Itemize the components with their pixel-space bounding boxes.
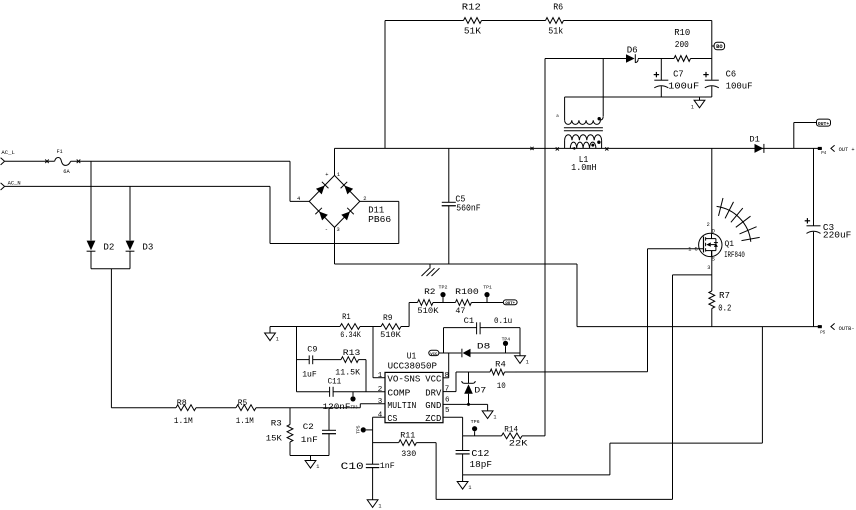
svg-text:R13: R13 (343, 348, 361, 358)
diode D1 (749, 135, 764, 153)
svg-text:AC_N: AC_N (8, 180, 21, 186)
ground V1 (457, 475, 471, 491)
svg-text:15K: 15K (266, 433, 283, 443)
test point TP5 (355, 425, 372, 434)
wire (335, 147, 822, 150)
wire (313, 359, 341, 361)
capacitor C7 (654, 59, 700, 98)
svg-text:1: 1 (378, 372, 383, 380)
svg-text:C7: C7 (673, 69, 684, 80)
svg-text:DRV: DRV (425, 389, 442, 399)
svg-text:D: D (712, 229, 715, 235)
resistor R2 (417, 287, 439, 316)
wire (129, 251, 131, 269)
test point TP2 (439, 284, 448, 302)
svg-text:VCC: VCC (425, 375, 442, 385)
capacitor C10 (341, 461, 395, 500)
svg-text:PB66: PB66 (368, 215, 391, 225)
svg-text:330: 330 (401, 449, 416, 459)
svg-text:5: 5 (445, 407, 450, 415)
svg-text:+: + (325, 172, 328, 178)
svg-text:D6: D6 (627, 45, 638, 56)
capacitor C9 (302, 344, 317, 379)
svg-text:1: 1 (691, 105, 694, 111)
svg-text:1: 1 (493, 415, 496, 421)
svg-text:IRF840: IRF840 (724, 251, 745, 260)
svg-text:51k: 51k (548, 26, 563, 37)
svg-text:TP2: TP2 (439, 284, 448, 290)
wire (297, 359, 310, 361)
wire (333, 391, 385, 393)
svg-text:220uF: 220uF (823, 230, 852, 241)
diode D8 (462, 342, 490, 358)
net label OUT+ (817, 119, 831, 127)
wire (335, 263, 578, 265)
svg-text:OUTB-: OUTB- (839, 326, 855, 332)
diode D3 (126, 241, 154, 253)
wire (673, 274, 712, 276)
wire (296, 327, 298, 392)
wire (401, 303, 418, 327)
capacitor C2 (301, 408, 336, 456)
wire (505, 371, 648, 373)
svg-text:22K: 22K (509, 439, 529, 449)
wire (443, 372, 456, 392)
ground V1 (305, 456, 319, 471)
wire (384, 21, 386, 149)
capacitor C11 (323, 377, 351, 412)
resistor R3 (266, 408, 293, 456)
wire (359, 360, 367, 392)
svg-text:1uF: 1uF (302, 370, 317, 380)
wire (270, 326, 340, 328)
svg-text:R2: R2 (424, 287, 435, 297)
svg-text:510K: 510K (380, 330, 402, 340)
test point TP1 (483, 284, 492, 302)
test point TP3 (350, 392, 357, 411)
svg-text:2: 2 (378, 386, 383, 394)
wire (256, 404, 385, 408)
svg-text:51K: 51K (464, 26, 481, 37)
svg-text:P5: P5 (820, 331, 826, 335)
wire (91, 268, 130, 270)
svg-text:R4: R4 (495, 360, 506, 370)
svg-text:100uF: 100uF (726, 81, 753, 92)
test point TP4 (502, 337, 511, 353)
svg-text:1.1M: 1.1M (236, 416, 254, 426)
wire (gate) (648, 248, 704, 250)
heatsink of Q1 (717, 198, 760, 242)
svg-text:C12: C12 (471, 449, 489, 459)
svg-text:0.2: 0.2 (718, 304, 731, 314)
svg-text:1nF: 1nF (380, 461, 395, 471)
svg-text:F1: F1 (57, 149, 63, 155)
resistor R9 (380, 313, 402, 340)
wire (433, 302, 455, 304)
svg-text:D8: D8 (477, 342, 490, 352)
svg-text:1nF: 1nF (301, 435, 318, 445)
net label OUT+ (503, 300, 517, 306)
svg-text:OUT+: OUT+ (818, 121, 830, 127)
svg-text:R14: R14 (504, 425, 518, 435)
diode D2 (87, 241, 115, 253)
wire (647, 249, 649, 372)
svg-text:D3: D3 (142, 243, 153, 253)
svg-text:CS: CS (387, 414, 397, 424)
svg-text:4: 4 (297, 196, 300, 202)
net label BO (712, 42, 725, 50)
wire (691, 58, 712, 60)
wire (519, 328, 521, 356)
wire (110, 269, 112, 408)
svg-text:R5: R5 (238, 398, 248, 408)
resistor R11 (399, 431, 417, 460)
svg-text:UCC38050P: UCC38050P (388, 361, 437, 371)
wire (545, 58, 626, 60)
svg-text:1: 1 (468, 485, 471, 491)
ground V1 (691, 97, 705, 111)
svg-text:1 G: 1 G (688, 247, 697, 253)
svg-text:100uF: 100uF (668, 81, 699, 92)
wire (360, 326, 381, 328)
svg-text:1: 1 (526, 359, 529, 365)
ground (earth) (422, 264, 440, 276)
svg-text:560nF: 560nF (456, 204, 481, 214)
svg-text:TP5: TP5 (355, 425, 361, 434)
wire (334, 148, 336, 175)
svg-text:C2: C2 (303, 422, 314, 432)
svg-text:BO: BO (716, 44, 723, 50)
wire (439, 352, 461, 354)
svg-text:R1: R1 (342, 312, 351, 322)
svg-text:D11: D11 (368, 206, 384, 216)
svg-text:VO-SNS: VO-SNS (387, 375, 420, 385)
wire (794, 123, 817, 149)
wire (564, 20, 712, 22)
fuse F1 (45, 149, 80, 175)
capacitor C1 (444, 316, 521, 353)
svg-text:ZCD: ZCD (425, 414, 441, 424)
svg-text:R9: R9 (383, 313, 393, 323)
svg-text:3: 3 (707, 265, 710, 271)
svg-text:6: 6 (445, 397, 450, 405)
svg-text:1: 1 (337, 172, 340, 178)
svg-text:Q1: Q1 (725, 239, 735, 249)
wire (5, 160, 55, 162)
wire (196, 407, 236, 409)
wire (463, 435, 502, 437)
svg-text:6.34K: 6.34K (340, 330, 361, 340)
resistor R13 (335, 348, 361, 377)
capacitor C3 (805, 148, 852, 326)
svg-text:1: 1 (276, 337, 279, 343)
wire (482, 20, 546, 22)
svg-text:TP4: TP4 (502, 337, 511, 343)
test point TP6 (471, 419, 480, 436)
wire (522, 435, 545, 437)
wire (471, 352, 521, 354)
port AC_L (1, 150, 15, 165)
svg-text:-: - (325, 227, 328, 233)
resistor R100 (455, 287, 479, 316)
svg-text:U1: U1 (407, 351, 417, 361)
svg-text:C11: C11 (328, 377, 342, 387)
svg-text:C10: C10 (341, 462, 364, 473)
svg-text:OUT +: OUT + (839, 147, 855, 153)
svg-text:MULTIN: MULTIN (387, 401, 416, 411)
port P4 OUT+ (818, 145, 855, 156)
resistor R1 (340, 312, 362, 340)
resistor R6 (546, 1, 564, 36)
wire (385, 20, 464, 22)
svg-text:10: 10 (497, 381, 506, 391)
op-amp U1 (UCC38050P PFC controller) (378, 351, 450, 424)
diode D6 (626, 45, 638, 63)
net label VCC (429, 350, 439, 357)
resistor R4 (490, 360, 506, 392)
svg-text:120nF: 120nF (323, 402, 351, 412)
svg-text:R6: R6 (553, 1, 563, 12)
wire (443, 353, 449, 378)
svg-text:D2: D2 (103, 243, 114, 253)
svg-text:7: 7 (445, 386, 450, 394)
wire (71, 160, 290, 162)
svg-text:C9: C9 (307, 344, 317, 354)
wire (456, 371, 490, 373)
diode D7 (462, 372, 487, 404)
svg-text:1.1M: 1.1M (174, 416, 193, 426)
svg-text:200: 200 (675, 39, 689, 50)
wire (290, 161, 309, 201)
svg-text:1: 1 (378, 503, 381, 509)
svg-text:GND: GND (425, 401, 441, 411)
wire (90, 161, 92, 240)
svg-text:R8: R8 (177, 398, 187, 408)
capacitor C12 (456, 436, 492, 475)
inductor L1 (PFC transformer) (556, 97, 609, 173)
resistor R8 (174, 398, 196, 426)
svg-text:R12: R12 (462, 1, 481, 12)
svg-text:C1: C1 (464, 316, 475, 326)
wire (602, 59, 604, 117)
wire (565, 96, 712, 98)
port AC_N (1, 180, 21, 190)
resistor R14 (502, 425, 529, 449)
svg-text:2: 2 (363, 196, 366, 202)
ground V1 (265, 327, 279, 343)
resistor R5 (236, 398, 256, 426)
wire (577, 326, 822, 328)
ground V1 (482, 404, 496, 420)
resistor R12 (462, 1, 482, 36)
svg-text:510K: 510K (417, 306, 439, 316)
svg-text:TP1: TP1 (483, 284, 492, 290)
svg-text:P4: P4 (821, 152, 827, 156)
wire (711, 21, 713, 80)
svg-text:TP6: TP6 (471, 419, 480, 425)
svg-text:1: 1 (316, 464, 319, 470)
svg-text:OUT+: OUT+ (505, 302, 515, 306)
resistor R7 (709, 291, 731, 314)
bridge rectifier D11 (297, 172, 391, 233)
wire (471, 302, 503, 304)
svg-text:VCC: VCC (430, 353, 438, 357)
wire (aux sense) (544, 59, 546, 436)
svg-text:3: 3 (378, 398, 383, 406)
wire (638, 58, 674, 60)
svg-text:3: 3 (337, 227, 340, 233)
wire (source) (711, 251, 713, 291)
svg-text:R10: R10 (674, 27, 690, 38)
ground V1 (367, 500, 381, 510)
resistor R10 (674, 27, 691, 61)
svg-text:47: 47 (455, 306, 465, 316)
wire (463, 327, 763, 475)
wire (270, 186, 399, 243)
svg-text:18pF: 18pF (470, 460, 493, 470)
svg-text:R11: R11 (400, 431, 415, 441)
wire (290, 455, 329, 457)
svg-text:COMP: COMP (387, 389, 410, 399)
svg-text:6A: 6A (63, 169, 69, 175)
transistor Q1 (IRF840 MOSFET) (688, 148, 745, 270)
wire (443, 403, 488, 406)
svg-text:AC_L: AC_L (1, 150, 15, 156)
port P5 OUT- (818, 323, 855, 335)
svg-text:4: 4 (378, 411, 383, 419)
wire (297, 391, 330, 393)
svg-text:1.0mH: 1.0mH (571, 162, 597, 173)
wire (129, 186, 131, 240)
wire (576, 264, 578, 327)
wire (5, 185, 270, 187)
wire (416, 443, 672, 500)
capacitor C5 (442, 148, 481, 264)
wire (111, 407, 176, 409)
capacitor C6 (703, 69, 753, 97)
svg-text:R7: R7 (719, 291, 730, 301)
ground V1 (515, 356, 529, 366)
svg-text:D1: D1 (749, 135, 760, 145)
wire (373, 417, 385, 464)
wire (90, 251, 92, 269)
wire (373, 442, 399, 444)
svg-text:2: 2 (707, 222, 710, 228)
wire (711, 309, 713, 327)
wire (334, 227, 336, 264)
svg-text:R3: R3 (271, 418, 282, 428)
svg-text:0.1u: 0.1u (494, 316, 512, 326)
svg-text:C6: C6 (726, 69, 737, 80)
wire (672, 275, 674, 500)
wire (443, 417, 463, 436)
svg-text:R100: R100 (455, 287, 479, 297)
svg-text:D7: D7 (474, 386, 486, 396)
wire (373, 327, 385, 378)
